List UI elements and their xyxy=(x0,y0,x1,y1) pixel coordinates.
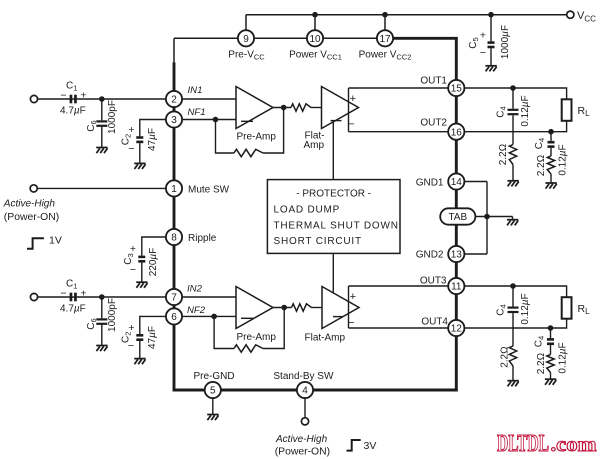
svg-text:6: 6 xyxy=(171,312,177,323)
TAB pad xyxy=(440,208,475,224)
svg-text:Pre-Amp: Pre-Amp xyxy=(237,132,277,143)
wire: Pre-Amp 2 output xyxy=(273,307,292,309)
svg-text:9: 9 xyxy=(243,34,249,45)
wire: OUT1 to C4 xyxy=(512,88,514,109)
pin 6 NF2 xyxy=(166,308,182,324)
wire: pin 7 to Pre-Amp 2 input xyxy=(182,296,236,298)
svg-text:Mute SW: Mute SW xyxy=(188,185,230,196)
wire: TAB to ground xyxy=(475,216,513,218)
minus dash inside Pre-Amp 2 xyxy=(241,317,253,319)
ground zobel ch1 branch B xyxy=(545,183,556,189)
junction input2/C6 xyxy=(99,294,105,300)
wire: C5 to ground xyxy=(490,48,492,65)
wire: protector to Flat-Amp 2 xyxy=(332,253,334,292)
IC box left edge thick segment xyxy=(173,63,176,392)
svg-text:1000µF: 1000µF xyxy=(500,25,511,59)
svg-text:0.12µF: 0.12µF xyxy=(558,144,569,175)
svg-text:Amp: Amp xyxy=(304,140,325,151)
svg-text:−: − xyxy=(480,47,486,59)
svg-text:47µF: 47µF xyxy=(147,326,158,349)
wire: pin 3 NF1 into Pre-Amp 1 xyxy=(182,119,236,121)
svg-text:GND1: GND1 xyxy=(416,177,444,188)
wire: C4 to resistor (ch2 B) xyxy=(550,345,552,354)
wire: GND bracket vertical xyxy=(486,182,488,255)
terminal mute SW xyxy=(30,185,37,192)
junction OUT3 zobel tap xyxy=(510,283,516,289)
svg-text:13: 13 xyxy=(451,250,463,261)
pin 14 GND1 xyxy=(448,173,464,189)
ground below C2 (channel 1) xyxy=(134,163,145,169)
pin 2 IN1 xyxy=(166,91,182,107)
svg-text:DLTDL: DLTDL xyxy=(497,431,549,457)
wire: feedback right leg (ch2) xyxy=(263,308,284,349)
op-amp Flat-Amp 1 xyxy=(322,87,359,129)
wire: feedback left leg (ch2) xyxy=(214,316,234,348)
junction OUT2 zobel tap xyxy=(548,129,554,135)
wire: C4 to 2.2 ohm resistor, crossing OUT2 xyxy=(512,115,514,144)
IC box top edge (thin, left of pin 17) xyxy=(174,37,385,39)
svg-text:2.2Ω: 2.2Ω xyxy=(536,155,547,177)
ground below C6 (input 2) xyxy=(96,346,107,352)
terminal input 2 xyxy=(30,293,37,300)
resistor feedback (ch1) xyxy=(234,149,263,156)
wire: Pre-Amp 1 output xyxy=(273,107,291,109)
wire: resistor to ground (ch1 B) xyxy=(550,174,552,183)
pin 10 Power VCC1 xyxy=(307,30,323,46)
junction input1/C6 xyxy=(99,96,105,102)
wire: OUT4 to C4 (ch2 B) xyxy=(550,328,552,338)
IC box left edge upper thin segment xyxy=(173,38,175,64)
svg-text:0.12µF: 0.12µF xyxy=(520,293,531,324)
resistor 2.2 ohm (ch2 branch A) xyxy=(509,346,516,366)
svg-text:Flat-Amp: Flat-Amp xyxy=(305,333,346,344)
wire: to Flat-Amp 1 input xyxy=(311,107,322,109)
pin 13 GND2 xyxy=(448,246,464,262)
wire: pin 4 to terminal xyxy=(304,398,306,417)
junction Pre-Amp 1 output xyxy=(281,105,287,111)
svg-text:−: − xyxy=(130,264,136,276)
minus dash inside Pre-Amp 1 xyxy=(241,120,253,122)
svg-text:3V: 3V xyxy=(364,440,377,452)
wire: stub to TAB ground xyxy=(512,217,514,220)
wire: resistor to ground (ch1 A) xyxy=(512,165,514,181)
svg-text:4: 4 xyxy=(302,386,308,397)
svg-text:Active-High: Active-High xyxy=(3,199,56,210)
svg-text:Pre-GND: Pre-GND xyxy=(193,371,234,382)
pin 5 Pre-GND xyxy=(205,382,221,398)
svg-text:+: + xyxy=(350,291,356,303)
wire: pin 8 ripple to C3 xyxy=(142,237,174,256)
svg-text:NF2: NF2 xyxy=(187,305,206,316)
wire: C4 to 2.2 ohm, crossing OUT4 xyxy=(512,313,514,346)
wire: C3 to ground xyxy=(141,263,143,282)
svg-text:OUT4: OUT4 xyxy=(421,317,448,328)
svg-text:16: 16 xyxy=(451,127,463,138)
resistor series (ch2) xyxy=(292,304,312,311)
junction above pin 10 xyxy=(312,12,318,18)
wire: stub rail to pin 9 xyxy=(245,15,247,38)
wire: rail to C5 xyxy=(490,15,492,42)
capacitor C6 1000pF (input 2) xyxy=(96,318,107,325)
3V step symbol xyxy=(347,440,361,451)
svg-text:−: − xyxy=(128,143,134,155)
pin 4 Stand-By SW xyxy=(297,382,313,398)
junction NF1 feedback tap xyxy=(213,117,219,123)
ground below C5 xyxy=(485,66,496,72)
svg-text:15: 15 xyxy=(451,84,463,95)
svg-text:LOAD DUMP: LOAD DUMP xyxy=(274,204,341,215)
wire: junction to C6 (input 2) xyxy=(101,297,103,318)
wire: top VCC rail xyxy=(246,14,567,16)
svg-text:2.2Ω: 2.2Ω xyxy=(500,346,511,368)
svg-text:- PROTECTOR -: - PROTECTOR - xyxy=(296,189,371,200)
svg-text:.com: .com xyxy=(551,432,597,456)
wire: C6 to ground (input 2) xyxy=(101,325,103,346)
ground below C2 (channel 2) xyxy=(134,359,145,365)
pin 12 OUT4 xyxy=(448,320,464,336)
junction Pre-Amp 2 output xyxy=(281,305,287,311)
junction OUT1 zobel tap xyxy=(510,85,516,91)
pin 8 Ripple xyxy=(166,229,182,245)
capacitor C1 4.7uF (polarized, input 2) xyxy=(70,293,77,302)
svg-text:Active-High: Active-High xyxy=(275,434,328,445)
op-amp Pre-Amp 1 xyxy=(236,87,273,129)
wire: OUT1 to load RL xyxy=(456,88,566,99)
ground zobel ch2 branch A xyxy=(507,381,518,387)
pin 16 OUT2 xyxy=(448,124,464,140)
svg-text:GND2: GND2 xyxy=(416,250,444,261)
svg-text:THERMAL SHUT DOWN: THERMAL SHUT DOWN xyxy=(274,221,399,232)
svg-text:Pre-Amp: Pre-Amp xyxy=(237,332,277,343)
pin 1 Mute SW xyxy=(166,180,182,196)
svg-text:220µF: 220µF xyxy=(148,248,159,277)
terminal stand-by xyxy=(301,418,308,425)
svg-text:11: 11 xyxy=(451,282,462,293)
svg-text:IN1: IN1 xyxy=(188,85,203,96)
svg-text:Ripple: Ripple xyxy=(188,233,217,244)
svg-text:TAB: TAB xyxy=(448,212,467,223)
ground zobel ch1 branch A xyxy=(507,181,518,187)
wire: input2 to pin 7 xyxy=(38,296,174,298)
terminal input 1 xyxy=(30,95,37,102)
pin 3 NF1 xyxy=(166,111,182,127)
svg-text:+: + xyxy=(130,243,136,255)
svg-text:OUT3: OUT3 xyxy=(420,276,447,287)
ground below C6 (input 1) xyxy=(96,148,107,154)
svg-text:0.12µF: 0.12µF xyxy=(520,95,531,126)
capacitor C5 1000uF (polarized) xyxy=(488,41,495,48)
pin 7 IN2 xyxy=(166,289,182,305)
IC box top edge (thick, right of pin 17) xyxy=(385,37,458,40)
junction at C5 tap xyxy=(488,12,494,18)
svg-text:(Power-ON): (Power-ON) xyxy=(275,446,330,457)
pin 17 Power VCC2 xyxy=(377,30,393,46)
wire: resistor to ground (ch2 A) xyxy=(512,366,514,381)
wire: RL to OUT4 xyxy=(456,319,566,328)
svg-text:+: + xyxy=(80,287,86,299)
minus dash inside Flat-Amp 2 xyxy=(333,316,343,318)
wire: pin 5 to ground xyxy=(212,398,214,414)
resistor 2.2 ohm (ch1 branch B) xyxy=(547,156,554,174)
svg-text:4.7µF: 4.7µF xyxy=(60,106,86,117)
wire: stub rail to pin 17 xyxy=(384,15,386,38)
svg-text:2.2Ω: 2.2Ω xyxy=(498,144,509,166)
svg-text:OUT2: OUT2 xyxy=(420,117,447,128)
ground below C3 xyxy=(136,282,147,288)
svg-text:0.12µF: 0.12µF xyxy=(558,342,569,373)
capacitor C3 220uF xyxy=(138,256,145,263)
svg-text:5: 5 xyxy=(210,386,216,397)
wire: pin 6 NF2 into Pre-Amp 2 xyxy=(182,315,236,317)
wire: Flat-Amp 1 output bridge xyxy=(348,88,350,132)
capacitor C2 47uF (channel 1) xyxy=(136,136,143,143)
junction NF2 feedback tap xyxy=(211,314,217,320)
svg-text:NF1: NF1 xyxy=(188,107,206,118)
wire: OUT2 from Flat-Amp 1 to pin 16 xyxy=(349,131,457,133)
svg-text:47µF: 47µF xyxy=(147,128,158,151)
wire: OUT3 to C4 (ch2) xyxy=(512,286,514,307)
junction above pin 17 xyxy=(382,12,388,18)
wire: Flat-Amp 1 to protector xyxy=(332,121,334,180)
svg-text:7: 7 xyxy=(171,293,177,304)
wire: C4 to resistor (ch1 B) xyxy=(550,148,552,156)
svg-text:1V: 1V xyxy=(49,234,62,246)
wire: OUT1 from Flat-Amp 1 to pin 15 xyxy=(349,87,457,89)
resistor RL (ch1) xyxy=(562,99,572,121)
wire: RL to OUT2 xyxy=(456,121,566,132)
svg-text:17: 17 xyxy=(379,34,391,45)
wire: junction to C6 xyxy=(101,99,103,120)
capacitor C4 0.12uF (ch2 branch B) xyxy=(547,338,554,345)
wire: feedback right leg (ch1) xyxy=(263,108,284,154)
resistor 2.2 ohm (ch1 branch A) xyxy=(509,145,516,165)
wire: C2 to ground (ch2) xyxy=(139,341,141,359)
wire: stub rail to pin 10 xyxy=(314,15,316,38)
svg-text:1000pF: 1000pF xyxy=(107,100,118,134)
svg-text:10: 10 xyxy=(309,34,321,45)
svg-text:+: + xyxy=(480,30,486,42)
svg-text:8: 8 xyxy=(171,233,177,244)
capacitor C4 0.12uF (ch1 branch B) xyxy=(548,141,555,148)
capacitor C4 0.12uF (ch1 branch A) xyxy=(508,109,519,116)
svg-text:−: − xyxy=(348,317,354,329)
svg-text:2: 2 xyxy=(171,95,177,106)
wire: pin 3 NF1 to C2 xyxy=(140,120,174,137)
junction OUT4 zobel tap xyxy=(548,325,554,331)
wire: pin 13 GND2 to bracket xyxy=(456,253,487,255)
svg-text:−: − xyxy=(348,119,354,131)
svg-text:+: + xyxy=(350,93,356,105)
resistor 2.2 ohm (ch2 branch B) xyxy=(547,355,554,373)
svg-text:−: − xyxy=(128,340,134,352)
resistor series (ch1) xyxy=(291,104,311,111)
IC box bottom edge (thick) xyxy=(173,389,458,392)
IC box right edge (thick) xyxy=(455,37,458,391)
capacitor C4 0.12uF (ch2 branch A) xyxy=(508,307,519,314)
wire: pin 14 GND1 to bracket xyxy=(456,181,487,183)
svg-text:Stand-By SW: Stand-By SW xyxy=(273,371,334,382)
DLTDL.com watermark logo xyxy=(497,431,597,457)
svg-text:4.7µF: 4.7µF xyxy=(60,304,86,315)
resistor RL (ch2) xyxy=(562,297,572,319)
svg-text:12: 12 xyxy=(451,324,463,335)
wire: resistor to ground (ch2 B) xyxy=(550,373,552,380)
capacitor C6 1000pF (input 1) xyxy=(96,120,107,127)
wire: input1 to pin 2 xyxy=(38,98,174,100)
svg-text:14: 14 xyxy=(451,177,463,188)
pin 11 OUT3 xyxy=(448,278,464,294)
op-amp Pre-Amp 2 xyxy=(236,287,273,329)
wire: OUT2 to C4 (branch B) xyxy=(550,132,552,141)
svg-text:1000pF: 1000pF xyxy=(107,298,118,332)
svg-text:−: − xyxy=(60,89,66,101)
svg-text:3: 3 xyxy=(171,115,177,126)
wire: OUT4 from Flat-Amp 2 to pin 12 xyxy=(349,327,457,329)
wire: Flat-Amp 2 output bridge xyxy=(348,286,350,328)
terminal VCC xyxy=(567,11,574,18)
svg-text:IN2: IN2 xyxy=(187,284,203,295)
wire: OUT3 from Flat-Amp 2 to pin 11 xyxy=(349,285,457,287)
pin 9 Pre-VCC xyxy=(238,30,254,46)
svg-text:1: 1 xyxy=(171,184,177,195)
capacitor C1 4.7uF (polarized, input 1) xyxy=(70,95,77,104)
svg-text:2.2Ω: 2.2Ω xyxy=(536,353,547,375)
ground zobel ch2 branch B xyxy=(545,379,556,385)
svg-text:−: − xyxy=(60,287,66,299)
minus dash inside Flat-Amp 1 xyxy=(331,120,342,122)
wire: feedback left leg (ch1) xyxy=(216,120,235,154)
wire: pin 2 to Pre-Amp 1 input xyxy=(182,98,236,100)
wire: C6 to ground xyxy=(101,127,103,148)
wire: C2 to ground xyxy=(139,143,141,163)
svg-text:+: + xyxy=(80,89,86,101)
wire: pin 6 NF2 to C2 xyxy=(140,316,174,334)
capacitor C2 47uF (channel 2) xyxy=(136,334,143,341)
ground below pin 5 xyxy=(207,415,218,421)
protector block xyxy=(267,180,400,254)
1V step symbol xyxy=(27,238,44,249)
svg-text:OUT1: OUT1 xyxy=(420,76,447,87)
resistor feedback (ch2) xyxy=(234,345,263,352)
junction TAB/bracket xyxy=(484,214,490,220)
svg-text:SHORT CIRCUIT: SHORT CIRCUIT xyxy=(274,236,362,247)
wire: to Flat-Amp 2 input xyxy=(312,307,323,309)
wire: mute terminal to pin 1 xyxy=(37,187,174,189)
ground at TAB xyxy=(507,220,518,226)
wire: OUT3 to load RL xyxy=(456,286,566,297)
op-amp Flat-Amp 2 xyxy=(322,287,359,329)
pin 15 OUT1 xyxy=(448,80,464,96)
svg-text:(Power-ON): (Power-ON) xyxy=(4,212,59,223)
